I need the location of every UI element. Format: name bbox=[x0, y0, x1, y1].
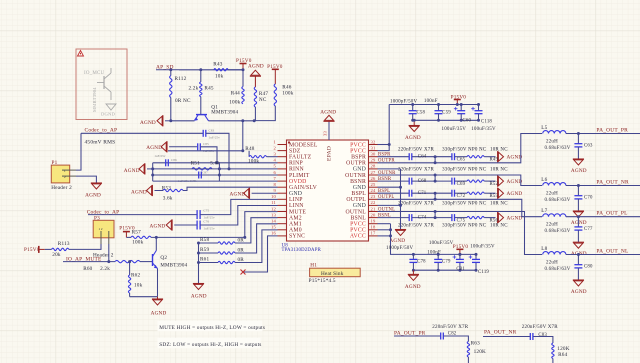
ground AGND under C63 bbox=[571, 159, 587, 174]
svg-text:R62: R62 bbox=[131, 273, 140, 279]
wire PVCC rail to pins bbox=[378, 105, 390, 151]
svg-text:C86: C86 bbox=[171, 158, 177, 162]
svg-text:1uF/25v: 1uF/25v bbox=[154, 154, 166, 158]
wire PA_OUT_NL feed bbox=[378, 212, 543, 255]
pin 14 AM1 bbox=[271, 219, 302, 228]
ghost transistor Q? (unpopulated MCU interface block) bbox=[84, 68, 116, 117]
designator U8 bbox=[282, 243, 289, 248]
label C118 bbox=[481, 120, 492, 125]
svg-text:PVCC: PVCC bbox=[350, 142, 366, 148]
wire link C71 row bbox=[434, 193, 436, 199]
svg-text:AGND: AGND bbox=[507, 191, 523, 197]
svg-text:1uF/25v: 1uF/25v bbox=[203, 226, 215, 230]
power port P15V0 (left edge) bbox=[24, 246, 45, 253]
capacitor C76 bbox=[197, 219, 215, 230]
svg-text:10R NC: 10R NC bbox=[490, 168, 508, 173]
svg-text:2.2k: 2.2k bbox=[100, 266, 110, 272]
svg-text:R60: R60 bbox=[83, 266, 92, 272]
svg-text:C80: C80 bbox=[584, 265, 593, 270]
capacitor C82 bbox=[441, 332, 457, 340]
pin 26 BSNR bbox=[350, 176, 377, 185]
resistor R51 bbox=[191, 161, 221, 171]
junctions C78 bbox=[412, 253, 415, 272]
svg-text:MUTE: MUTE bbox=[289, 209, 306, 215]
junctions C118 bbox=[477, 103, 480, 122]
resistor R61 (0R) to AM pin bbox=[199, 230, 278, 264]
wire link C74 row bbox=[434, 212, 436, 218]
svg-text:100uF/35V: 100uF/35V bbox=[442, 127, 467, 132]
ground AGND row R55 bbox=[498, 188, 523, 199]
pin 3 FAULTZ bbox=[274, 152, 312, 161]
svg-text:31: 31 bbox=[371, 145, 376, 150]
capacitor C79 bbox=[434, 254, 442, 270]
wire AP_SD horizontal bbox=[179, 69, 243, 71]
junction P3/mute bbox=[107, 260, 110, 263]
ground AGND under C80 bbox=[571, 280, 587, 295]
label R56 bbox=[490, 219, 499, 224]
svg-text:R58: R58 bbox=[200, 237, 209, 243]
resistor R57 bbox=[126, 230, 151, 246]
svg-text:C119: C119 bbox=[478, 270, 489, 275]
wire C82 to R63 bbox=[444, 336, 469, 342]
text 100uF/35V (C119) bbox=[470, 244, 495, 249]
svg-text:27: 27 bbox=[371, 170, 376, 175]
junctions C119 bbox=[475, 253, 478, 272]
pin 20 BSNL bbox=[350, 212, 377, 221]
svg-text:C79: C79 bbox=[442, 260, 451, 265]
svg-text:PA_OUT_NR: PA_OUT_NR bbox=[596, 180, 629, 186]
pin 29 OUTPR bbox=[346, 158, 377, 167]
junction AP_SD/R44 node bbox=[242, 68, 245, 71]
pin 15 AM0 bbox=[271, 225, 302, 234]
junction R61 left bbox=[197, 261, 200, 264]
junction PVCC bottom bbox=[389, 228, 392, 237]
text 450mV RMS bbox=[85, 139, 116, 145]
pin 4 RINP bbox=[274, 158, 303, 167]
svg-text:11: 11 bbox=[271, 200, 276, 205]
resistor R44 bbox=[229, 70, 244, 106]
svg-text:Heat Sink: Heat Sink bbox=[321, 271, 344, 277]
svg-text:RINN: RINN bbox=[289, 167, 305, 173]
inductor L7 22uH bbox=[541, 208, 566, 228]
svg-text:220nF/50V X7R: 220nF/50V X7R bbox=[522, 325, 558, 330]
pin 2 SDZ bbox=[274, 145, 301, 154]
power port P15V0 (pull-up node) bbox=[236, 58, 252, 70]
junction filter nodes bbox=[151, 167, 221, 176]
resistor R58 (0R) to AM pin bbox=[199, 218, 278, 245]
pin 19 PVCC bbox=[350, 219, 377, 228]
svg-text:BSPR: BSPR bbox=[351, 155, 366, 161]
net label BSNL bbox=[378, 213, 391, 218]
svg-text:450mV RMS: 450mV RMS bbox=[85, 139, 116, 145]
svg-text:LINP: LINP bbox=[289, 197, 303, 203]
junctions C60 bbox=[460, 103, 463, 122]
svg-text:C64: C64 bbox=[418, 155, 427, 160]
junctions link C71 bbox=[434, 192, 437, 201]
wire pin32 to bus bbox=[378, 144, 390, 146]
svg-text:12: 12 bbox=[271, 206, 276, 211]
net label BSNR bbox=[378, 177, 392, 182]
pin 30 BSPR bbox=[351, 152, 377, 161]
wire PA_OUT_NR feed bbox=[378, 175, 543, 186]
text 220nF/50V X7R (C83) bbox=[522, 325, 558, 330]
resistor R63 bbox=[467, 340, 486, 363]
svg-text:AGND: AGND bbox=[131, 189, 147, 195]
pin 9 GND bbox=[274, 188, 303, 197]
label C68 bbox=[418, 179, 427, 184]
ground AGND (left rail) bbox=[140, 115, 171, 126]
svg-text:1 2: 1 2 bbox=[99, 227, 103, 231]
net label BSPR bbox=[378, 153, 391, 158]
inductor L8 22uH bbox=[541, 246, 566, 266]
svg-text:R47: R47 bbox=[259, 91, 268, 97]
wire LINP to pin10 bbox=[200, 199, 277, 214]
capacitor C75 bbox=[197, 209, 215, 220]
svg-text:10k: 10k bbox=[215, 73, 224, 79]
svg-text:R52: R52 bbox=[490, 182, 499, 187]
resistor R45 bbox=[188, 70, 213, 114]
svg-text:C77: C77 bbox=[584, 227, 593, 232]
net label Codec_to_AP (upper) bbox=[85, 128, 118, 134]
wire PA_OUT_NR sense bbox=[483, 336, 530, 338]
label R49 bbox=[490, 158, 499, 163]
svg-text:MMBT3904: MMBT3904 bbox=[92, 87, 97, 112]
capacitor C119 (polarized) bbox=[469, 254, 480, 270]
svg-text:PLIMIT: PLIMIT bbox=[289, 173, 310, 179]
resistor R53 bbox=[162, 185, 183, 201]
svg-text:100uF/35V: 100uF/35V bbox=[471, 127, 496, 132]
svg-text:100uF/35V: 100uF/35V bbox=[470, 244, 495, 249]
text 1000pF/50V (C78) bbox=[386, 246, 413, 251]
svg-text:L8: L8 bbox=[541, 246, 547, 252]
svg-text:100k: 100k bbox=[132, 240, 143, 246]
capacitor C59 bbox=[435, 105, 452, 121]
wire codec lower LINP bbox=[88, 214, 197, 216]
wire codec upper to RINN drop bbox=[206, 133, 229, 169]
annotation marker / no-ERC directive on disabled MCU block bbox=[76, 49, 127, 120]
svg-text:OVDD: OVDD bbox=[289, 179, 306, 185]
net label PA_OUT_NL bbox=[596, 249, 628, 255]
svg-text:PVCC: PVCC bbox=[350, 222, 366, 228]
wire L7 out bbox=[566, 216, 640, 218]
wire L5 out bbox=[566, 133, 640, 135]
svg-text:H1: H1 bbox=[310, 263, 317, 269]
svg-text:AM2: AM2 bbox=[289, 215, 302, 221]
ground AGND row R52 bbox=[498, 176, 523, 187]
svg-text:15: 15 bbox=[271, 225, 276, 230]
wire Q2 emitter down bbox=[157, 269, 159, 297]
text 100nF (C79) bbox=[427, 250, 441, 255]
values row R52 bbox=[398, 168, 508, 173]
capacitor C83 (input coupling) bbox=[203, 129, 220, 140]
ground AGND at IC GND pin 9 bbox=[230, 188, 278, 199]
junction at R45 top bbox=[199, 68, 202, 71]
svg-text:P15*15*4.5: P15*15*4.5 bbox=[309, 278, 336, 284]
svg-text:24: 24 bbox=[371, 188, 376, 193]
wire AM common vertical bbox=[198, 243, 200, 284]
svg-text:P15V0: P15V0 bbox=[24, 247, 40, 253]
wire C85 to RINP drop bbox=[201, 147, 218, 163]
svg-text:EPAD: EPAD bbox=[327, 146, 333, 161]
svg-text:OUTNL: OUTNL bbox=[345, 209, 366, 215]
net label PA_OUT_PL bbox=[596, 211, 627, 217]
label C75 bbox=[457, 218, 466, 223]
net label PA_OUT_NR (sense) bbox=[484, 330, 517, 336]
svg-text:R113: R113 bbox=[58, 241, 70, 247]
svg-text:R59: R59 bbox=[200, 247, 209, 253]
label R55 bbox=[490, 194, 499, 199]
svg-text:R51: R51 bbox=[191, 161, 200, 167]
wire RINP line bbox=[153, 162, 278, 164]
wire link C68 row bbox=[434, 175, 436, 181]
ground AGND above IC bbox=[320, 110, 336, 122]
resistor R43 bbox=[213, 61, 228, 79]
svg-text:0.68uF/63V: 0.68uF/63V bbox=[545, 229, 571, 234]
svg-text:C118: C118 bbox=[481, 120, 492, 125]
svg-text:TPA3130D2DAPR: TPA3130D2DAPR bbox=[282, 248, 322, 253]
wire PA_OUT_PL feed bbox=[378, 199, 543, 216]
net label OUTNR bbox=[378, 171, 396, 176]
transistor Q2 MMBT3904 bbox=[153, 237, 188, 268]
svg-text:220nF/50V X7R: 220nF/50V X7R bbox=[398, 224, 434, 229]
svg-text:AGND: AGND bbox=[150, 224, 166, 230]
pin 32 PVCC bbox=[350, 139, 377, 148]
resistor R46 bbox=[254, 84, 294, 121]
resistor R48 bbox=[245, 146, 277, 164]
resistor R47 bbox=[254, 87, 268, 121]
values row R55 bbox=[398, 202, 508, 207]
net label OUTPL bbox=[378, 195, 394, 200]
svg-text:R61: R61 bbox=[200, 256, 209, 262]
svg-text:AGND: AGND bbox=[320, 110, 336, 116]
pin 27 OUTNR bbox=[345, 170, 377, 179]
wire R60 to Q2 base bbox=[140, 261, 153, 263]
svg-text:C68: C68 bbox=[418, 179, 427, 184]
header P1 bbox=[51, 160, 76, 191]
svg-text:21: 21 bbox=[371, 206, 376, 211]
pin 25 GND bbox=[353, 182, 378, 191]
wire bottom bank gnd rail bbox=[413, 269, 476, 271]
svg-text:0.68uF/63V: 0.68uF/63V bbox=[545, 146, 571, 151]
text 220nF/50V X7R (C82) bbox=[432, 325, 468, 330]
svg-text:C58: C58 bbox=[417, 111, 426, 116]
pin 17 AVCC bbox=[350, 231, 378, 240]
svg-text:C69: C69 bbox=[457, 182, 466, 187]
label C79 bbox=[442, 260, 451, 265]
inductor L5 22uH bbox=[541, 125, 566, 145]
wire LINN to pin11 bbox=[200, 206, 277, 226]
capacitor C83b bbox=[530, 333, 547, 340]
svg-text:33: 33 bbox=[323, 131, 328, 136]
net label OUTNL bbox=[378, 207, 395, 212]
svg-text:PA_OUT_NL: PA_OUT_NL bbox=[596, 249, 628, 255]
pin 23 OUTPL bbox=[346, 194, 377, 203]
svg-text:C83: C83 bbox=[209, 129, 215, 133]
svg-text:AGND: AGND bbox=[146, 145, 162, 151]
pin 21 OUTNL bbox=[345, 206, 377, 215]
label C78 bbox=[417, 260, 426, 265]
capacitor C60 (polarized) bbox=[454, 105, 465, 121]
svg-text:10k: 10k bbox=[134, 283, 143, 289]
svg-text:LINN: LINN bbox=[289, 203, 304, 209]
svg-text:Header 2: Header 2 bbox=[51, 185, 72, 191]
ground AGND under C70 bbox=[571, 211, 587, 226]
svg-text:GND: GND bbox=[353, 167, 366, 173]
svg-text:100k: 100k bbox=[229, 100, 240, 106]
svg-text:Codec_to_AP: Codec_to_AP bbox=[85, 128, 118, 134]
junction at R112 top bbox=[169, 68, 172, 71]
svg-text:10R NC: 10R NC bbox=[490, 202, 508, 207]
pin 22 GND bbox=[353, 200, 378, 209]
svg-text:23: 23 bbox=[371, 194, 376, 199]
ground AGND below Q2 bbox=[151, 297, 167, 317]
junction collector/R44-SDZ riser bbox=[241, 119, 244, 122]
ground AGND row R56 bbox=[498, 212, 523, 223]
wire SDZ riser (Q1 collector to SDZ line) bbox=[242, 121, 244, 151]
svg-text:MODESEL: MODESEL bbox=[289, 142, 318, 148]
svg-text:OUTPR: OUTPR bbox=[346, 161, 366, 167]
junction MUTE riser base bbox=[243, 236, 246, 239]
junction Q2 collector bbox=[155, 236, 158, 239]
svg-text:C59: C59 bbox=[442, 111, 451, 116]
text 100uF/35V (C60) bbox=[442, 127, 467, 132]
wire OVDD line bbox=[153, 180, 278, 182]
capacitor C86 bbox=[154, 154, 177, 166]
junctions link C64 bbox=[434, 155, 437, 164]
svg-text:C87: C87 bbox=[202, 170, 208, 174]
no-connect X on SYNC bbox=[241, 270, 246, 275]
wire GND bus bbox=[378, 169, 401, 230]
values row R56 bbox=[398, 224, 508, 229]
pin 24 BSPL bbox=[351, 188, 377, 197]
svg-text:0R: 0R bbox=[238, 257, 245, 263]
svg-text:C74: C74 bbox=[418, 216, 427, 221]
wire R53 to GAIN/SLV pin bbox=[183, 187, 278, 190]
wire IO_AP_MUTE bbox=[63, 261, 115, 263]
svg-text:PA_OUT_NR: PA_OUT_NR bbox=[484, 330, 517, 336]
svg-text:C60: C60 bbox=[463, 119, 472, 124]
svg-text:AGND: AGND bbox=[230, 191, 246, 197]
value TPA3130D2DAPR bbox=[282, 248, 322, 253]
capacitor C71 / capacitor C72 / resistor R55 snubber row bbox=[378, 190, 496, 197]
resistor R112 bbox=[170, 70, 191, 121]
wire filter right vertical bbox=[218, 163, 220, 181]
svg-text:L7: L7 bbox=[541, 208, 547, 214]
wire RINN line bbox=[153, 168, 278, 170]
wire PLIMIT line bbox=[153, 174, 278, 176]
junction P15V0 rail bbox=[456, 103, 459, 106]
svg-text:RINP: RINP bbox=[289, 161, 303, 167]
junction rail/R112 bbox=[169, 119, 172, 122]
svg-text:PVCC: PVCC bbox=[350, 228, 366, 234]
wire ground rail to Q1 emitter bbox=[171, 120, 195, 122]
resistor R62 bbox=[128, 262, 142, 297]
svg-text:MUTE HIGH = outputs Hi-Z, LOW: MUTE HIGH = outputs Hi-Z, LOW = outputs bbox=[159, 325, 265, 331]
svg-text:220nF/50V X7R: 220nF/50V X7R bbox=[398, 147, 434, 152]
svg-text:AGND: AGND bbox=[571, 289, 587, 295]
capacitor C74 / capacitor C75 / resistor R56 snubber row bbox=[378, 214, 496, 221]
svg-text:AGND: AGND bbox=[124, 168, 140, 174]
text 100uF/35V (C81) bbox=[429, 241, 454, 246]
text 100uF/35V (C118) bbox=[471, 127, 496, 132]
capacitor C68 / capacitor C69 / resistor R52 snubber row bbox=[378, 178, 496, 185]
junction L8 out bbox=[577, 253, 580, 256]
pin 18 PVCC bbox=[350, 225, 377, 234]
svg-text:AGND: AGND bbox=[571, 168, 587, 174]
svg-text:0R: 0R bbox=[238, 238, 245, 244]
junctions C58 bbox=[411, 103, 414, 122]
junction L6 out bbox=[577, 184, 580, 187]
svg-text:AGND: AGND bbox=[507, 179, 523, 185]
svg-text:C85: C85 bbox=[203, 142, 209, 146]
wire P1 pin2 to ground bbox=[76, 176, 96, 183]
label R52 bbox=[490, 182, 499, 187]
junction drop on RINN line bbox=[228, 167, 231, 170]
svg-text:R55: R55 bbox=[490, 194, 499, 199]
pin 16 SYNC bbox=[271, 231, 305, 240]
resistor R59 (0R) to AM pin bbox=[199, 224, 278, 254]
label C69 bbox=[457, 182, 466, 187]
svg-text:28: 28 bbox=[371, 164, 376, 169]
junction R59 left bbox=[197, 252, 200, 255]
ground AGND at C85 line bbox=[146, 141, 197, 152]
pin 8 GAIN/SLV bbox=[274, 182, 318, 191]
svg-text:19: 19 bbox=[371, 219, 376, 224]
inductor L6 22uH bbox=[541, 177, 566, 197]
svg-text:100k: 100k bbox=[282, 90, 293, 96]
wire PVCC bottom rail (gnd) bbox=[413, 119, 479, 121]
capacitor C118 (polarized) bbox=[471, 105, 482, 121]
ground AGND above R47 bbox=[248, 63, 264, 87]
svg-text:R57: R57 bbox=[132, 230, 141, 236]
junction P15V0 bottom bbox=[458, 253, 461, 256]
wire filter left vertical bbox=[152, 163, 154, 181]
capacitor C64 / capacitor C65 / resistor R49 snubber row bbox=[378, 153, 496, 160]
junction R58 left bbox=[197, 242, 200, 245]
header P3 bbox=[93, 215, 114, 258]
label C119 bbox=[478, 270, 489, 275]
svg-text:IO_MCU: IO_MCU bbox=[84, 71, 105, 76]
ground AGND under C77 bbox=[571, 242, 587, 257]
svg-text:C63: C63 bbox=[584, 144, 593, 149]
svg-text:100nF: 100nF bbox=[424, 99, 438, 104]
label C72 bbox=[457, 194, 466, 199]
svg-text:OUTNR: OUTNR bbox=[345, 173, 366, 179]
svg-text:14: 14 bbox=[271, 219, 276, 224]
svg-text:26: 26 bbox=[371, 176, 376, 181]
svg-text:100k: 100k bbox=[248, 158, 259, 164]
wire SYNC pin16 bbox=[243, 236, 278, 272]
label C60 bbox=[463, 119, 472, 124]
wire R113 to P3 bbox=[69, 244, 101, 249]
svg-text:P3: P3 bbox=[94, 215, 100, 221]
wire PA_OUT_PR feed bbox=[378, 134, 543, 163]
svg-text:20: 20 bbox=[371, 212, 376, 217]
svg-text:R45: R45 bbox=[204, 86, 213, 92]
svg-text:PA_OUT_PR: PA_OUT_PR bbox=[394, 330, 426, 336]
svg-text:22uH: 22uH bbox=[546, 139, 558, 144]
svg-text:330pF/50V NP0 NC: 330pF/50V NP0 NC bbox=[442, 168, 487, 173]
wire C83 to R64 bbox=[533, 337, 553, 344]
svg-text:R64: R64 bbox=[558, 352, 567, 358]
junction GND bus bbox=[399, 186, 402, 207]
svg-text:120K: 120K bbox=[474, 349, 486, 355]
svg-text:C70: C70 bbox=[584, 196, 593, 201]
svg-text:AGND: AGND bbox=[405, 284, 421, 290]
svg-text:PA_OUT_PR: PA_OUT_PR bbox=[596, 128, 628, 134]
values row R49 bbox=[398, 147, 508, 152]
svg-text:P1: P1 bbox=[52, 160, 58, 166]
